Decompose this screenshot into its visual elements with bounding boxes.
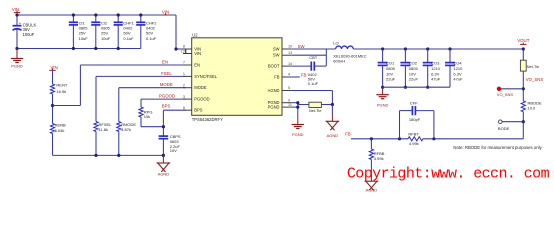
- svg-text:BPS: BPS: [162, 104, 171, 109]
- svg-text:PGOOD: PGOOD: [194, 97, 209, 102]
- svg-text:10V: 10V: [409, 71, 416, 76]
- svg-text:CFF: CFF: [410, 100, 418, 105]
- svg-text:BODE: BODE: [498, 126, 510, 131]
- svg-text:0.1uF: 0.1uF: [123, 36, 134, 41]
- svg-text:FB: FB: [274, 75, 280, 80]
- svg-text:600nH: 600nH: [333, 59, 345, 64]
- svg-text:0.1uF: 0.1uF: [308, 81, 319, 86]
- svg-text:11.8k: 11.8k: [99, 127, 109, 132]
- svg-text:SW: SW: [298, 44, 306, 49]
- svg-text:47uF: 47uF: [453, 77, 463, 82]
- svg-text:AGND: AGND: [268, 88, 280, 93]
- svg-text:Note: RBODE for measurement pu: Note: RBODE for measurement purposes onl…: [453, 145, 542, 150]
- svg-text:50V: 50V: [123, 30, 130, 35]
- svg-text:PGND: PGND: [292, 132, 304, 137]
- svg-text:Copyright:www. eccn. com: Copyright:www. eccn. com: [347, 165, 550, 182]
- svg-text:47uF: 47uF: [431, 77, 441, 82]
- svg-text:SW: SW: [273, 53, 280, 58]
- svg-text:PGND: PGND: [268, 105, 280, 110]
- svg-text:10: 10: [288, 45, 292, 49]
- svg-text:10k: 10k: [144, 114, 150, 119]
- svg-text:CBT: CBT: [309, 55, 318, 60]
- svg-text:7: 7: [183, 61, 185, 65]
- svg-text:22uF: 22uF: [409, 77, 419, 82]
- svg-text:1210: 1210: [431, 66, 441, 71]
- svg-text:10uF: 10uF: [101, 36, 111, 41]
- svg-text:6.04k: 6.04k: [55, 128, 65, 133]
- svg-text:4.87k: 4.87k: [121, 127, 131, 132]
- svg-text:14: 14: [288, 62, 292, 66]
- svg-text:2: 2: [183, 83, 185, 87]
- svg-text:AGND: AGND: [327, 133, 339, 138]
- svg-text:VO_SNS: VO_SNS: [526, 77, 544, 82]
- svg-text:PGND: PGND: [377, 103, 389, 108]
- svg-text:CO4: CO4: [453, 61, 462, 66]
- svg-text:CO1: CO1: [386, 61, 395, 66]
- svg-text:3: 3: [183, 95, 185, 99]
- svg-text:16.9k: 16.9k: [56, 89, 66, 94]
- svg-text:+: +: [19, 21, 22, 26]
- svg-text:8: 8: [183, 45, 185, 49]
- svg-text:10.0: 10.0: [528, 105, 537, 110]
- svg-text:RENT: RENT: [56, 83, 67, 88]
- svg-text:0.1uF: 0.1uF: [146, 36, 157, 41]
- svg-text:AGND: AGND: [158, 171, 170, 176]
- svg-text:VIN: VIN: [162, 9, 169, 14]
- svg-text:50V: 50V: [146, 30, 153, 35]
- svg-text:1: 1: [183, 72, 185, 76]
- svg-text:0805: 0805: [409, 66, 419, 71]
- svg-text:TPS54362DRFY: TPS54362DRFY: [192, 117, 223, 122]
- svg-text:Net-Tie: Net-Tie: [309, 109, 321, 113]
- svg-text:SYNC/FSEL: SYNC/FSEL: [194, 74, 217, 79]
- svg-text:RFBT: RFBT: [408, 132, 419, 137]
- svg-text:FSEL: FSEL: [161, 71, 172, 76]
- svg-text:CO3: CO3: [431, 61, 440, 66]
- svg-text:FB: FB: [301, 73, 307, 78]
- svg-text:U2: U2: [192, 33, 198, 38]
- svg-text:6.3V: 6.3V: [453, 71, 462, 76]
- svg-text:VO_SNS: VO_SNS: [497, 92, 514, 97]
- svg-text:CO2: CO2: [409, 61, 418, 66]
- svg-text:10V: 10V: [170, 148, 177, 153]
- svg-text:Net-Tie: Net-Tie: [527, 65, 539, 69]
- svg-text:11: 11: [288, 103, 292, 107]
- svg-text:VIN: VIN: [194, 51, 201, 56]
- svg-text:10V: 10V: [386, 71, 393, 76]
- svg-text:EN: EN: [194, 63, 200, 68]
- svg-text:22uF: 22uF: [386, 77, 396, 82]
- svg-text:4.99k: 4.99k: [374, 156, 384, 161]
- svg-text:VIN: VIN: [50, 65, 57, 70]
- svg-text:MODE: MODE: [160, 82, 173, 87]
- svg-text:BPS: BPS: [194, 108, 202, 113]
- svg-text:VOUT: VOUT: [517, 38, 530, 43]
- svg-text:VIN: VIN: [12, 7, 19, 12]
- svg-text:AGND: AGND: [366, 187, 378, 192]
- svg-text:4: 4: [288, 73, 290, 77]
- svg-text:10uF: 10uF: [79, 36, 89, 41]
- svg-text:SW: SW: [273, 47, 280, 52]
- svg-text:13: 13: [288, 51, 292, 55]
- svg-text:0805: 0805: [386, 66, 396, 71]
- svg-text:12: 12: [181, 49, 185, 53]
- svg-text:PGOOD: PGOOD: [159, 93, 175, 98]
- svg-text:25V: 25V: [101, 30, 108, 35]
- svg-text:6: 6: [183, 106, 185, 110]
- svg-text:BOOT: BOOT: [268, 64, 280, 69]
- svg-text:RENB: RENB: [55, 122, 66, 127]
- svg-text:LO: LO: [333, 41, 338, 46]
- svg-text:25V: 25V: [79, 30, 86, 35]
- svg-text:5: 5: [288, 86, 290, 90]
- svg-text:4.99k: 4.99k: [409, 141, 419, 146]
- svg-text:FB: FB: [345, 132, 351, 137]
- svg-text:180pF: 180pF: [409, 117, 421, 122]
- svg-text:1210: 1210: [453, 66, 463, 71]
- svg-text:100uF: 100uF: [23, 32, 35, 37]
- svg-text:MODE: MODE: [194, 85, 207, 90]
- svg-text:EN: EN: [162, 60, 168, 65]
- svg-text:9: 9: [288, 98, 290, 102]
- svg-text:PGND: PGND: [11, 64, 23, 69]
- svg-text:6.3V: 6.3V: [431, 71, 440, 76]
